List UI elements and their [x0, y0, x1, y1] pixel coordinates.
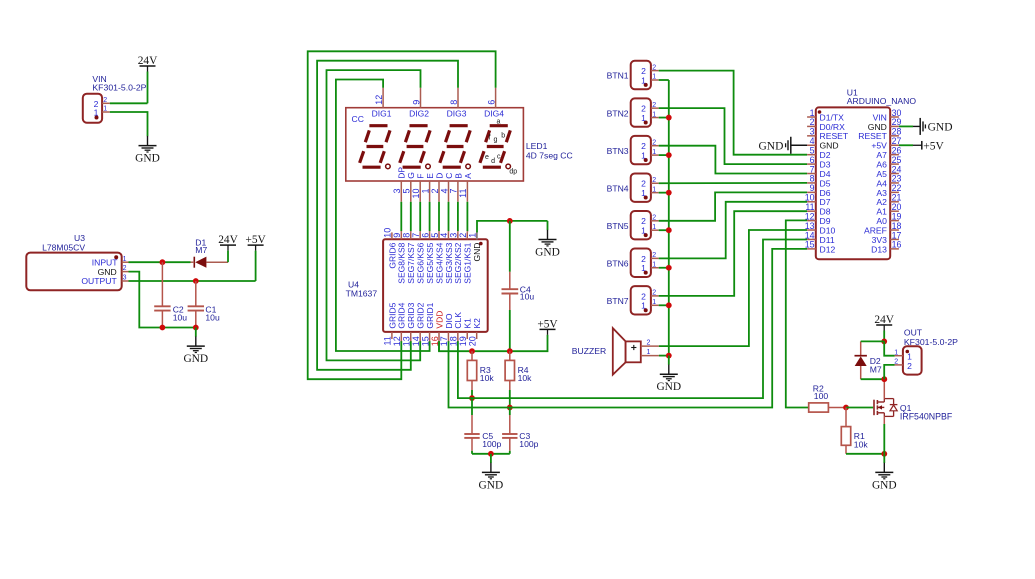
pin 1 of BTN4	[641, 186, 659, 198]
wire net BTN5 to D6	[659, 192, 807, 220]
svg-text:20: 20	[467, 336, 477, 346]
svg-text:a: a	[497, 118, 501, 125]
wire net VDD: U4 pin16 to +5V rail	[438, 341, 440, 351]
wire D2 bottom to drain	[861, 378, 885, 380]
svg-text:DIG1: DIG1	[372, 108, 392, 118]
junction CLK / R3	[469, 395, 475, 401]
wire net DIO: U4 pin17 to D12	[449, 249, 808, 408]
svg-text:IRF540NPBF: IRF540NPBF	[900, 412, 953, 422]
svg-text:dp: dp	[509, 168, 517, 175]
pin lead into U4 top for net DP	[400, 231, 402, 232]
pin 4 GND of U1	[807, 136, 839, 151]
wire 24V junction to OUT pin1	[884, 341, 894, 355]
svg-text:7: 7	[449, 189, 459, 194]
svg-text:DIG4: DIG4	[484, 108, 504, 118]
wire OUT pin2 to drain node	[884, 365, 894, 379]
wire net BTN1 to D2	[659, 71, 807, 155]
svg-text:1: 1	[652, 261, 656, 268]
pin 7 D4 of U1	[807, 164, 831, 179]
svg-text:2: 2	[430, 189, 440, 194]
pin 9 D6 of U1	[807, 183, 831, 198]
wire net B: LED1 to U4	[457, 202, 459, 231]
svg-text:OUT: OUT	[904, 327, 923, 337]
svg-text:1: 1	[652, 224, 656, 231]
svg-text:D13: D13	[871, 244, 887, 254]
pin 12 GRID4 of U4	[392, 302, 407, 346]
pin 5 D2 of U1	[807, 145, 831, 160]
svg-text:1: 1	[641, 113, 646, 123]
wire net F: LED1 to U4	[419, 202, 421, 231]
pin 28 RESET of U1	[858, 127, 901, 142]
connector VIN KF301-5.0-2P	[83, 74, 147, 123]
wire button common to buzzer/GND	[668, 80, 670, 356]
pin 1 of OUT	[894, 349, 912, 361]
digit 1 seven-segment glyph	[360, 126, 391, 169]
pin 2 of BTN7	[641, 290, 659, 302]
pin 1 of VIN	[94, 106, 110, 118]
pin 19 K1 of U4	[458, 318, 473, 346]
wire net CLK: U4 pin18 to D11	[458, 240, 807, 399]
wire net BTN2 to D3	[659, 108, 807, 164]
svg-text:L78M05CV: L78M05CV	[42, 242, 85, 252]
svg-text:1: 1	[641, 301, 646, 311]
junction rail / R4 / C4	[507, 348, 513, 354]
pin 14 D11 of U1	[805, 230, 835, 245]
capacitor C3 100p	[502, 408, 539, 454]
ground right of U4	[535, 221, 560, 259]
junction common at BTN5	[666, 227, 672, 233]
wire U3 GND to capacitor bottoms	[129, 272, 196, 328]
svg-text:D12: D12	[820, 244, 836, 254]
svg-text:+5V: +5V	[245, 234, 266, 246]
ground below C5 C3	[479, 454, 504, 492]
pin lead into U4 top for net B	[457, 231, 459, 232]
pin 2 of OUT	[894, 359, 912, 371]
source lead of Q1	[883, 416, 885, 453]
svg-text:2: 2	[652, 290, 656, 297]
pin 10 GRID6 of U4	[383, 228, 398, 269]
pin lead into U4 top for net E	[429, 231, 431, 232]
pin 1 of BTN6	[641, 261, 659, 273]
pin 4 C of LED1	[439, 173, 454, 202]
pin 11 A of LED1	[458, 173, 473, 202]
wire net BUZZER+ to D10	[659, 230, 807, 346]
transistor Q1 IRF540NPBF	[874, 399, 953, 422]
svg-text:1: 1	[652, 111, 656, 118]
pin 10 F of LED1	[411, 174, 426, 202]
resistor R2 100 (horizontal)	[809, 383, 846, 412]
pin 1 of BTN1	[641, 74, 659, 86]
svg-text:10u: 10u	[520, 291, 535, 301]
wire net DIG3/GRID3	[317, 61, 458, 370]
svg-text:CC: CC	[352, 114, 364, 124]
pin 1 of BTN2	[641, 111, 659, 123]
svg-text:10u: 10u	[173, 313, 188, 323]
pin 1 D1/TX of U1	[807, 108, 844, 123]
supply 24V above D1	[218, 234, 238, 262]
pin 2 of VIN	[94, 97, 110, 109]
svg-text:GND: GND	[479, 479, 504, 491]
svg-text:BTN3: BTN3	[607, 146, 629, 156]
pin 21 A2 of U1	[876, 193, 901, 208]
wire BTN6 pin1 to common	[659, 267, 669, 269]
pin 18 AREF of U1	[864, 221, 902, 236]
junction source / R1 / GND	[881, 451, 887, 457]
svg-text:GND: GND	[656, 381, 681, 393]
svg-text:10k: 10k	[480, 373, 495, 383]
resistor R4 10k	[505, 351, 532, 390]
svg-text:2: 2	[652, 139, 656, 146]
wire net D: LED1 to U4	[438, 202, 440, 231]
svg-text:1: 1	[652, 186, 656, 193]
pin 3 DP of LED1	[392, 167, 407, 202]
svg-text:DIG2: DIG2	[409, 108, 429, 118]
svg-text:100p: 100p	[482, 439, 501, 449]
svg-text:DIG3: DIG3	[447, 108, 467, 118]
lead R3 bottom to junction	[471, 390, 473, 398]
wire net BTN7 to D8	[659, 211, 807, 296]
svg-text:2: 2	[907, 361, 912, 371]
svg-text:3: 3	[392, 189, 402, 194]
svg-text:10k: 10k	[518, 373, 533, 383]
pin 8 D5 of U1	[807, 174, 831, 189]
capacitor C2 10u	[154, 262, 187, 327]
svg-text:1: 1	[641, 263, 646, 273]
svg-text:BTN2: BTN2	[607, 108, 629, 118]
svg-text:15: 15	[805, 240, 815, 250]
svg-text:3: 3	[123, 275, 127, 282]
svg-text:1: 1	[641, 226, 646, 236]
buzzer BUZZER speaker symbol	[572, 328, 641, 375]
svg-text:f: f	[489, 135, 491, 142]
wire BTN2 pin1 to common	[659, 117, 669, 119]
svg-text:BTN7: BTN7	[607, 296, 629, 306]
svg-text:2: 2	[652, 102, 656, 109]
svg-text:GND: GND	[872, 479, 897, 491]
wire net D9 to R2	[786, 220, 809, 407]
svg-text:2: 2	[103, 97, 107, 104]
svg-text:M7: M7	[195, 245, 207, 255]
pin 22 A3 of U1	[876, 183, 901, 198]
pin 2 of BTN4	[641, 177, 659, 189]
ground at U1 pin 29 (sideways right)	[899, 118, 953, 135]
pin 30 VIN of U1	[873, 108, 902, 123]
pin 12 DIG1 of LED1	[372, 88, 392, 119]
pin lead U4 bottom for net DIG3/GRID3	[410, 339, 412, 341]
wire BTN3 pin1 to common	[659, 154, 669, 156]
pin 2 D of LED1	[430, 173, 445, 202]
ground below VIN	[135, 127, 160, 165]
pin 2 of BUZZER	[641, 339, 659, 346]
pin 8 DIG3 of LED1	[447, 88, 467, 119]
svg-text:1: 1	[467, 233, 477, 238]
junction common at BTN2	[666, 115, 672, 121]
svg-text:100: 100	[814, 391, 829, 401]
pin 14 GRID2 of U4	[411, 302, 426, 346]
svg-text:1: 1	[123, 256, 127, 263]
pin 2 of BTN3	[641, 139, 659, 151]
pin 1 of BUZZER	[641, 349, 659, 356]
svg-text:BTN4: BTN4	[607, 183, 629, 193]
svg-text:8: 8	[449, 100, 459, 105]
junction OUTPUT / C1	[193, 278, 199, 284]
svg-text:2: 2	[652, 177, 656, 184]
wire net DIG1/GRID1	[336, 80, 430, 352]
resistor R3 10k	[467, 351, 494, 390]
pin 7 B of LED1	[449, 173, 464, 202]
diode D2 M7	[855, 341, 882, 379]
pin 26 A7 of U1	[876, 145, 901, 160]
pin lead into U4 top for net G	[410, 231, 412, 232]
svg-text:GND: GND	[758, 140, 783, 152]
svg-text:2: 2	[652, 64, 656, 71]
svg-text:d: d	[491, 158, 495, 165]
wire BTN5 pin1 to common	[659, 229, 669, 231]
svg-text:2: 2	[123, 265, 127, 272]
junction OUT2 / D2 / drain	[881, 376, 887, 382]
button BTN1 KF301-like switch	[607, 61, 651, 89]
pin 3 OUTPUT of U3	[81, 275, 128, 287]
svg-text:1: 1	[652, 149, 656, 156]
svg-text:g: g	[493, 137, 497, 144]
pin 2 of BTN2	[641, 102, 659, 114]
pin 18 CLK of U4	[449, 312, 464, 346]
svg-text:GND: GND	[135, 153, 160, 165]
button BTN4 KF301-like switch	[607, 173, 651, 201]
wire U3 INPUT to D1 cathode	[129, 261, 191, 263]
pin lead U4 pin 17	[448, 339, 450, 341]
mcu U1 ARDUINO_NANO outline	[816, 87, 917, 259]
svg-text:A: A	[463, 173, 473, 179]
pin 25 A6 of U1	[876, 155, 901, 170]
svg-text:12: 12	[374, 95, 384, 105]
supply +5V left of C1	[245, 234, 266, 281]
supply 24V bottom right	[874, 314, 894, 342]
supply 24V above VIN	[138, 55, 158, 104]
svg-text:10k: 10k	[854, 440, 869, 450]
wire BTN4 pin1 to common	[659, 192, 669, 194]
svg-text:1: 1	[94, 108, 99, 118]
svg-text:KF301-5.0-2P: KF301-5.0-2P	[92, 82, 146, 92]
pin 11 GRID5 of U4	[383, 302, 398, 345]
diode D1 M7	[191, 237, 229, 267]
svg-text:2: 2	[652, 215, 656, 222]
pin 7 SEG6/KS6 of U4	[411, 232, 426, 283]
driver U4 TM1637 outline	[346, 239, 488, 332]
svg-text:1: 1	[652, 299, 656, 306]
capacitor C5 100p	[464, 398, 501, 454]
svg-text:16: 16	[892, 240, 902, 250]
pin 6 SEG5/KS5 of U4	[420, 232, 435, 283]
svg-text:e: e	[485, 154, 489, 161]
pin lead into U4 top for net A	[466, 231, 468, 232]
svg-text:100p: 100p	[519, 439, 538, 449]
junction 24V / D2 / OUT1	[881, 339, 887, 345]
pin 27 +5V of U1	[871, 136, 901, 151]
digit 3 seven-segment glyph	[440, 126, 471, 169]
pin lead U4 bottom for net DIG2/GRID2	[419, 339, 421, 341]
pin 15 D12 of U1	[805, 240, 836, 255]
svg-text:DP: DP	[397, 167, 407, 179]
button BTN2 KF301-like switch	[607, 98, 651, 126]
junction R2 / R1 / gate	[843, 405, 849, 411]
pin 1 of BTN5	[641, 224, 659, 236]
pin 1 of BTN3	[641, 149, 659, 161]
pin lead into U4 top for net C	[448, 231, 450, 232]
junction common at BTN6	[666, 265, 672, 271]
junction rail / R3	[469, 348, 475, 354]
pin 24 A5 of U1	[876, 164, 901, 179]
junction common at BTN3	[666, 152, 672, 158]
button BTN3 KF301-like switch	[607, 136, 651, 164]
pin 2 GND of U3	[98, 265, 129, 277]
supply +5V at U1 pin 27 (sideways right)	[899, 140, 945, 152]
wire VIN pin1 to GND	[110, 112, 148, 127]
pin 4 SEG3/KS3 of U4	[439, 232, 454, 283]
pin 1 INPUT of U3	[92, 256, 129, 268]
pin 16 VDD of U4	[430, 311, 445, 347]
wire net G: LED1 to U4	[410, 202, 412, 231]
svg-text:OUTPUT: OUTPUT	[81, 276, 117, 286]
svg-text:BTN5: BTN5	[607, 221, 629, 231]
pin lead into U4 top for net D	[438, 231, 440, 232]
svg-text:+5V: +5V	[923, 140, 944, 152]
pin lead U4 bottom for net DIG1/GRID1	[429, 339, 431, 341]
svg-text:24V: 24V	[218, 234, 238, 246]
junction buzzer / button common	[666, 353, 672, 359]
svg-text:11: 11	[458, 189, 468, 198]
junction C1 bottom	[193, 325, 199, 331]
junction C5 C3 ground	[488, 451, 494, 457]
wire net A: LED1 to U4	[466, 202, 468, 231]
pin 1 of BTN7	[641, 299, 659, 311]
pin 13 GRID3 of U4	[402, 302, 417, 346]
pin 13 D10 of U1	[805, 221, 836, 236]
pin 3 SEG2/KS2 of U4	[449, 232, 464, 283]
svg-text:GND: GND	[472, 243, 482, 262]
svg-text:1: 1	[652, 74, 656, 81]
wire BTN1 pin1 to common	[659, 79, 669, 81]
svg-text:BTN6: BTN6	[607, 258, 629, 268]
pin 16 D13 of U1	[871, 240, 901, 255]
button BTN7 KF301-like switch	[607, 286, 651, 314]
svg-text:4D 7seg CC: 4D 7seg CC	[526, 150, 573, 160]
svg-text:GND: GND	[928, 121, 953, 133]
grey lead at U4 pin 1	[476, 231, 478, 239]
button BTN5 KF301-like switch	[607, 211, 651, 239]
wire net DP: LED1 to U4	[400, 202, 402, 231]
junction C2 bottom	[160, 325, 166, 331]
button BTN6 KF301-like switch	[607, 249, 651, 277]
wire net C: LED1 to U4	[448, 202, 450, 231]
wire U4 GND pin1 to C4 and GND	[477, 221, 548, 233]
svg-text:1: 1	[647, 349, 651, 356]
ground below Q1	[872, 454, 897, 492]
pin 1 E of LED1	[420, 173, 435, 202]
wire U3 OUTPUT to +5V	[129, 280, 256, 282]
wire 24V to D2 top	[861, 340, 885, 342]
supply +5V right of U4	[537, 318, 558, 335]
svg-text:TM1637: TM1637	[346, 289, 378, 299]
connector OUT KF301-5.0-2P	[903, 327, 958, 374]
ground below C1	[183, 328, 208, 366]
svg-text:2: 2	[652, 252, 656, 259]
junction INPUT / C2	[160, 259, 166, 265]
pin 11 D8 of U1	[805, 202, 830, 217]
svg-text:9: 9	[411, 100, 421, 105]
pin 5 SEG4/KS4 of U4	[430, 232, 445, 283]
svg-text:BUZZER: BUZZER	[572, 346, 606, 356]
display LED1 4D 7seg CC outline	[346, 108, 524, 181]
svg-text:1: 1	[641, 75, 646, 85]
wire net DIG4/GRID4	[308, 51, 496, 379]
svg-text:1: 1	[103, 106, 107, 113]
svg-text:2: 2	[894, 359, 898, 366]
resistor R1 10k (vertical)	[841, 408, 868, 454]
pin 17 3V3 of U1	[872, 230, 902, 245]
drain lead of Q1	[883, 379, 885, 398]
wire VIN pin2 to 24V	[110, 102, 148, 104]
wire gate wire R2 to Q1	[846, 407, 873, 409]
pin lead U4 pin 16	[438, 339, 440, 341]
wire net BTN6 to D7	[659, 202, 807, 259]
wire R1 bottom to source/GND	[846, 453, 884, 455]
junction DIO / R4	[507, 405, 513, 411]
pin 10 D7 of U1	[805, 193, 831, 208]
pin 20 A1 of U1	[876, 202, 901, 217]
wire net E: LED1 to U4	[429, 202, 431, 231]
wire net DIG2/GRID2	[327, 70, 421, 360]
capacitor C4 10u	[502, 221, 535, 351]
pin 15 GRID1 of U4	[420, 302, 435, 346]
capacitor C1 10u	[188, 281, 220, 328]
wire C5/C3 common ground link	[472, 453, 510, 455]
digit 4 seven-segment glyph	[480, 126, 511, 169]
lead R4 bottom to junction	[509, 390, 511, 408]
svg-text:10u: 10u	[205, 313, 220, 323]
pin lead U4 bottom for net DIG4/GRID4	[400, 339, 402, 341]
svg-text:c: c	[497, 153, 501, 160]
svg-text:6: 6	[486, 100, 496, 105]
svg-text:KF301-5.0-2P: KF301-5.0-2P	[904, 337, 958, 347]
ground below buzzer	[656, 356, 681, 394]
pin 19 A0 of U1	[876, 211, 901, 226]
digit 2 seven-segment glyph	[400, 126, 431, 169]
svg-text:D: D	[434, 173, 444, 179]
wire net BTN3 to D4	[659, 146, 807, 174]
junction common at BTN4	[666, 190, 672, 196]
svg-text:GND: GND	[183, 353, 208, 365]
ground at U1 pin 4 (sideways left)	[758, 137, 807, 154]
pin 2 SEG1/KS1 of U4	[458, 232, 473, 283]
wire BTN7 pin1 to common	[659, 304, 669, 306]
svg-text:1: 1	[641, 188, 646, 198]
regulator U3 L78M05CV	[26, 233, 121, 290]
svg-text:K2: K2	[472, 318, 482, 329]
pin 1 GND of U4	[467, 232, 482, 261]
pin 29 GND of U1	[868, 117, 902, 132]
junction C4 top	[507, 218, 513, 224]
pin 6 D3 of U1	[807, 155, 831, 170]
pin 6 DIG4 of LED1	[484, 88, 504, 119]
pin 17 DIO of U4	[439, 313, 454, 346]
pin 20 K2 of U4	[467, 318, 482, 346]
junction common at BTN7	[666, 302, 672, 308]
pin 3 RESET of U1	[807, 127, 849, 142]
pin 8 SEG7/KS7 of U4	[402, 232, 417, 283]
svg-text:GND: GND	[535, 247, 560, 259]
pin lead U4 pin 18	[457, 339, 459, 341]
